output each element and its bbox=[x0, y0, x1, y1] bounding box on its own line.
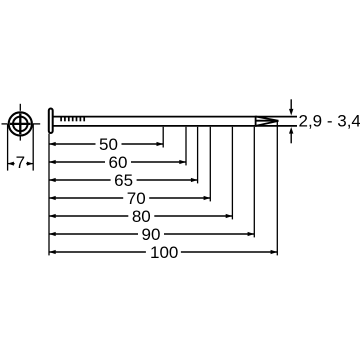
svg-text:100: 100 bbox=[150, 243, 178, 262]
svg-text:50: 50 bbox=[99, 135, 118, 154]
svg-text:2,9 - 3,4: 2,9 - 3,4 bbox=[299, 112, 360, 131]
svg-text:90: 90 bbox=[142, 225, 161, 244]
svg-text:65: 65 bbox=[114, 171, 133, 190]
svg-text:7: 7 bbox=[16, 153, 25, 172]
svg-text:80: 80 bbox=[132, 207, 151, 226]
svg-text:70: 70 bbox=[127, 189, 146, 208]
svg-text:60: 60 bbox=[109, 153, 128, 172]
